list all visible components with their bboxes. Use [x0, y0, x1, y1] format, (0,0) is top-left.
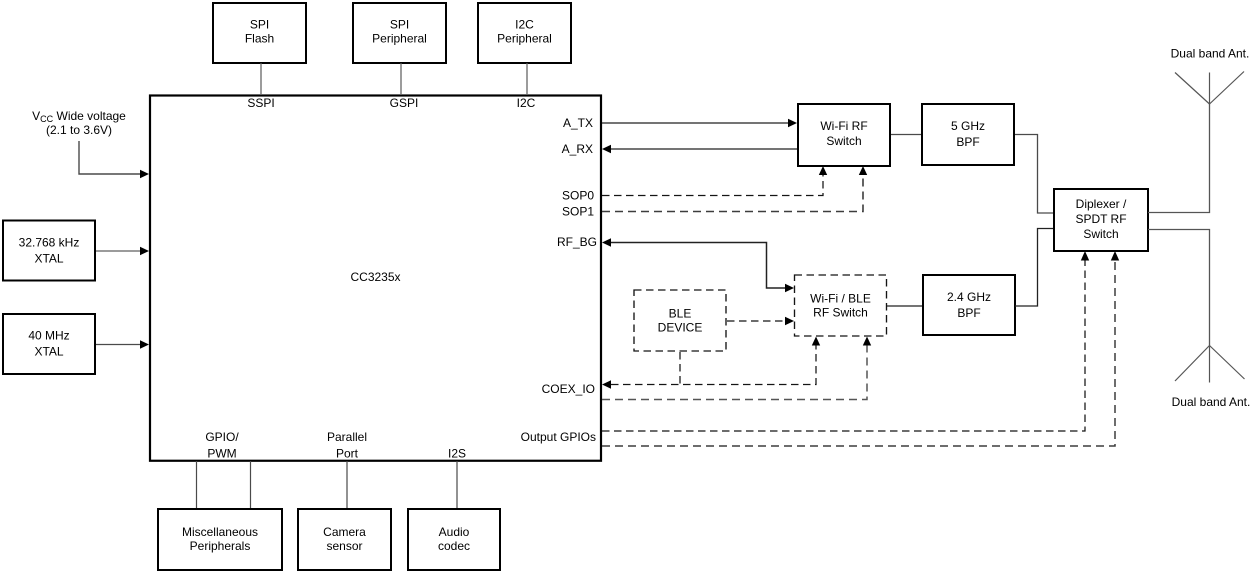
svg-text:Port: Port	[336, 447, 359, 461]
svg-text:I2C: I2C	[517, 96, 536, 110]
svg-text:Camera: Camera	[323, 525, 366, 539]
svg-text:DEVICE: DEVICE	[658, 321, 703, 335]
wire GSPI connector	[400, 63, 402, 94]
box Diplexer / SPDT RF Switch	[1054, 189, 1148, 251]
wire I2C connector	[526, 63, 528, 94]
svg-text:Wi-Fi / BLE: Wi-Fi / BLE	[810, 292, 871, 306]
wire BLE DEVICE to Wi-Fi/BLE RF Switch dashed	[727, 320, 787, 322]
wire SOP0 dashed	[602, 174, 823, 196]
arrow Vcc into CC3235x	[140, 170, 149, 178]
svg-text:SPI: SPI	[390, 18, 409, 32]
svg-text:Peripherals: Peripherals	[190, 539, 251, 553]
svg-text:Switch: Switch	[826, 134, 861, 148]
svg-text:codec: codec	[438, 539, 470, 553]
svg-text:CC3235x: CC3235x	[350, 270, 400, 284]
svg-text:Flash: Flash	[245, 32, 274, 46]
box I2C Peripheral	[478, 3, 571, 63]
wire 5 GHz BPF to Diplexer	[1015, 135, 1053, 214]
svg-text:5 GHz: 5 GHz	[951, 119, 985, 133]
svg-text:PWM: PWM	[207, 447, 236, 461]
box Miscellaneous Peripherals	[158, 509, 282, 570]
arrow A_TX into Wi-Fi RF Switch	[788, 119, 797, 127]
arrow SOP1 into Wi-Fi RF Switch	[859, 166, 867, 175]
svg-text:RF_BG: RF_BG	[557, 235, 597, 249]
box Wi-Fi RF Switch	[798, 104, 890, 166]
svg-text:Peripheral: Peripheral	[497, 32, 552, 46]
box SPI Flash	[213, 3, 306, 63]
svg-text:XTAL: XTAL	[34, 252, 63, 266]
svg-text:Dual band Ant.: Dual band Ant.	[1171, 47, 1250, 61]
arrow COEX_IO into CC3235x	[602, 380, 611, 388]
svg-text:SOP0: SOP0	[562, 189, 594, 203]
wire Parallel Port connector	[346, 461, 348, 508]
svg-text:Wi-Fi RF: Wi-Fi RF	[820, 119, 867, 133]
wire Diplexer to bottom antenna	[1148, 230, 1210, 346]
svg-text:Diplexer /: Diplexer /	[1076, 197, 1127, 211]
box main CC3235x	[150, 96, 601, 461]
svg-text:40 MHz: 40 MHz	[28, 329, 69, 343]
pin label Parallel Port	[327, 430, 367, 461]
wire A_TX	[602, 122, 789, 124]
wire 40M XTAL to CC3235x	[96, 344, 141, 346]
box Audio codec	[408, 509, 500, 570]
svg-text:BPF: BPF	[956, 135, 979, 149]
arrow COEX_IO line1 into Wi-Fi/BLE RF Switch	[812, 337, 820, 346]
svg-text:GSPI: GSPI	[390, 96, 419, 110]
arrow Output GPIOs line2 into Diplexer	[1111, 251, 1119, 261]
svg-text:Audio: Audio	[439, 525, 470, 539]
box 5 GHz BPF	[922, 104, 1014, 165]
wire COEX_IO line 2 dashed	[602, 344, 867, 400]
arrow 32k XTAL into CC3235x	[140, 247, 149, 255]
arrow 40M XTAL into CC3235x	[140, 340, 149, 348]
svg-text:Switch: Switch	[1083, 227, 1118, 241]
wire Diplexer to top antenna	[1148, 104, 1210, 213]
wire 32k XTAL to CC3235x	[96, 250, 141, 252]
svg-text:GPIO/: GPIO/	[205, 430, 239, 444]
arrow RF_BG into CC3235x	[602, 238, 611, 246]
svg-text:2.4 GHz: 2.4 GHz	[947, 290, 991, 304]
svg-text:SPI: SPI	[250, 18, 269, 32]
box 40 MHz XTAL	[3, 314, 95, 374]
svg-text:(2.1 to 3.6V): (2.1 to 3.6V)	[46, 123, 112, 137]
wire COEX_IO line 1 dashed	[611, 344, 816, 385]
svg-text:BLE: BLE	[669, 307, 692, 321]
box Camera sensor	[298, 509, 391, 570]
svg-text:Output GPIOs: Output GPIOs	[521, 430, 596, 444]
box BLE DEVICE dashed	[634, 290, 726, 351]
wire 2.4 GHz BPF to Diplexer	[1015, 229, 1053, 307]
svg-text:BPF: BPF	[957, 306, 980, 320]
svg-text:COEX_IO: COEX_IO	[542, 382, 595, 396]
wire Wi-Fi/BLE RF Switch to 2.4 GHz BPF	[887, 305, 922, 307]
svg-text:I2C: I2C	[515, 18, 534, 32]
arrow COEX_IO line2 into Wi-Fi/BLE RF Switch	[863, 337, 871, 346]
svg-text:32.768 kHz: 32.768 kHz	[19, 236, 80, 250]
svg-text:Peripheral: Peripheral	[372, 32, 427, 46]
wire A_RX	[611, 148, 797, 150]
wire I2S connector	[456, 461, 458, 508]
arrow Output GPIOs line1 into Diplexer	[1081, 251, 1089, 261]
svg-text:RF Switch: RF Switch	[813, 306, 868, 320]
antenna bottom (dual band)	[1175, 346, 1245, 383]
arrow A_RX into CC3235x	[602, 145, 611, 153]
svg-text:Dual band Ant.: Dual band Ant.	[1172, 395, 1251, 409]
wire BLE DEVICE down to COEX dashed	[679, 352, 681, 385]
arrow BLE into Wi-Fi/BLE RF Switch	[785, 317, 794, 325]
wire GPIO/PWM connector 2	[250, 461, 252, 508]
svg-text:XTAL: XTAL	[34, 345, 63, 359]
antenna top (dual band)	[1175, 72, 1244, 105]
wire Output GPIOs line 1 dashed	[602, 259, 1085, 431]
svg-text:Miscellaneous: Miscellaneous	[182, 525, 258, 539]
svg-text:I2S: I2S	[448, 447, 466, 461]
wire SOP1 dashed	[602, 174, 863, 212]
box 32.768 kHz XTAL	[3, 221, 95, 281]
svg-text:A_RX: A_RX	[562, 142, 593, 156]
wire Wi-Fi RF Switch to 5 GHz BPF	[891, 134, 921, 136]
svg-text:SOP1: SOP1	[562, 205, 594, 219]
svg-text:Parallel: Parallel	[327, 430, 367, 444]
arrow RF_BG into Wi-Fi/BLE RF Switch	[785, 284, 794, 292]
wire SSPI connector	[260, 63, 262, 94]
pin label GPIO/PWM	[205, 430, 239, 461]
label Vcc Wide voltage	[32, 109, 126, 137]
box SPI Peripheral	[353, 3, 446, 63]
wire Output GPIOs line 2 dashed	[602, 259, 1115, 446]
wire Vcc supply	[79, 141, 141, 174]
wire RF_BG	[611, 243, 788, 289]
box 2.4 GHz BPF	[923, 275, 1015, 335]
svg-text:sensor: sensor	[326, 539, 362, 553]
arrow SOP0 into Wi-Fi RF Switch	[819, 166, 827, 175]
svg-text:A_TX: A_TX	[563, 116, 593, 130]
wire GPIO/PWM connector 1	[196, 461, 198, 508]
svg-text:SSPI: SSPI	[247, 96, 274, 110]
box Wi-Fi / BLE RF Switch dashed	[795, 275, 887, 336]
svg-text:SPDT RF: SPDT RF	[1075, 212, 1126, 226]
